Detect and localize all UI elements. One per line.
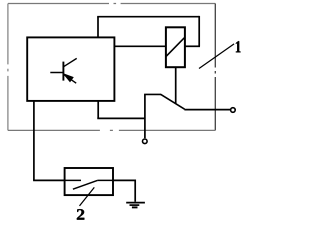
dash-dot enclosure box 1 : top edge [8,3,215,5]
transistor Q1 : collector [63,58,76,66]
wire : loop right vertical [198,16,200,46]
wire : horizontal to contact pole [97,117,145,119]
relay contact : blade diagonal [161,94,185,109]
ground : bar 2 [130,204,140,206]
terminal circle (bottom, below enclosure) [143,139,148,144]
leader line to label 1 [199,44,234,69]
wire : loop bottom to coil right [185,45,200,47]
leader line to label 2 [80,187,95,206]
wire : contact to right terminal [184,109,230,111]
dash-dot enclosure box 1 : right edge [214,4,216,131]
transistor Q1 : base bar [62,62,64,81]
label 1 [236,41,241,52]
transistor Q1 : emitter [64,75,76,83]
wire : loop top horizontal [97,16,199,18]
switch box 2 : blade [73,180,98,189]
wire : box bottom left vertical down [33,101,35,180]
switch box 2 : left contact stub [64,179,81,181]
terminal circle (right) [231,108,236,113]
transistor Q1 : base lead [50,72,63,74]
relay contact : pole top horizontal [144,93,161,95]
wire : horizontal into switch box 2 [33,179,64,181]
transistor Q1 : emitter arrowhead [64,74,73,82]
wire : coil bottom to contact blade [175,67,177,104]
wire : switch box 2 to ground [113,180,135,201]
ground : bar 1 [126,202,145,204]
ground : bar 3 [132,206,138,208]
relay coil K1 : diagonal [166,38,184,56]
relay contact : pole vertical [144,94,146,138]
dash-dot enclosure box 1 : bottom edge [8,129,215,131]
switch box 2 : right contact line [97,179,113,181]
switch box 2 : body [65,168,113,195]
wire : box top to loop (vertical) [97,17,99,38]
wire : box bottom right to contact pole [97,101,99,119]
control module box (transistor block) [27,37,114,101]
label 2 [77,209,84,219]
wire : box right edge to coil left [114,45,165,47]
relay coil K1 : body [166,27,185,67]
dash-dot enclosure box 1 : left edge [7,4,9,131]
